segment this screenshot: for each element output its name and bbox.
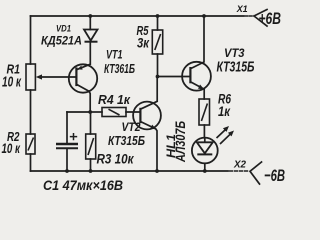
svg-text:КД521А: КД521А [41, 33, 82, 47]
wire left rail lower (R2 to bottom) [30, 154, 32, 171]
wire node A down to R3 [90, 112, 92, 134]
resistor R3 [86, 134, 96, 159]
svg-text:10 к: 10 к [2, 140, 21, 156]
wire bottom rail [31, 170, 229, 172]
svg-text:10 к: 10 к [2, 74, 21, 90]
svg-text:X1: X1 [236, 4, 248, 15]
svg-text:R4 1к: R4 1к [98, 92, 131, 107]
svg-text:−6В: −6В [264, 166, 285, 185]
wire VT3 emitter down to R6 [203, 89, 205, 99]
resistor R2 [26, 134, 35, 154]
junction node bottom VT2 emitter [155, 169, 159, 173]
junction node A (VT1 collector / R4 / C1 / R3) [88, 110, 92, 114]
svg-text:VT3: VT3 [224, 46, 245, 60]
wire R3 bottom lead [90, 159, 92, 171]
svg-text:КТ361Б: КТ361Б [104, 62, 135, 76]
svg-text:+6В: +6В [259, 10, 282, 28]
junction node top VD1 [88, 14, 92, 18]
svg-text:VT2: VT2 [122, 120, 141, 134]
resistor R1 (potentiometer body) [26, 64, 35, 90]
terminal X2 arrow [250, 162, 262, 184]
HL1 light emission arrow 1 [217, 126, 230, 138]
wire C1 top lead [66, 112, 68, 143]
wire R6 to HL1 [203, 125, 205, 138]
svg-text:С1 47мк×16В: С1 47мк×16В [43, 177, 123, 193]
junction node top VT3 collector [202, 14, 206, 18]
svg-text:КТ315Б: КТ315Б [108, 133, 145, 148]
wire node A to R4 [90, 111, 102, 113]
junction node bottom C1 [65, 169, 69, 173]
transistor VT2 (NPN) [133, 101, 161, 129]
LED HL1 [192, 138, 218, 164]
resistor R4 [102, 108, 126, 117]
wire node B to VT3 base [158, 76, 191, 78]
wire node A to C1 [67, 111, 90, 113]
VT1 emitter arrowhead (points to base) [77, 66, 82, 70]
wire VT2 emitter down to bottom rail [156, 129, 157, 171]
diode VD1 [84, 30, 98, 42]
wire node B down to VT2 collector [156, 77, 158, 102]
transistor VT1 (PNP) [69, 64, 97, 92]
svg-text:КТ315Б: КТ315Б [217, 60, 255, 76]
transistor VT3 (NPN) [182, 62, 211, 91]
wire bottom rail dashed lead-out to X2 [230, 170, 250, 172]
wire VD1 cathode to VT1 emitter [89, 42, 91, 65]
wire R5 bottom lead to node B [157, 54, 159, 77]
wire R4 to VT2 base [126, 111, 140, 113]
resistor R6 [199, 99, 210, 125]
wire VT1 collector down to node A [89, 91, 90, 112]
junction node bottom R3 [89, 169, 93, 173]
svg-text:X2: X2 [233, 159, 246, 171]
R1 wiper arrow to VT1 base [36, 74, 77, 79]
VT2 emitter arrowhead [150, 125, 156, 130]
wire top rail dashed lead-out to X1 [246, 15, 254, 17]
wire top rail [31, 15, 245, 17]
wire HL1 cathode to bottom rail [204, 163, 206, 171]
paper background [0, 0, 287, 193]
HL1 light emission arrow 2 [220, 131, 234, 145]
svg-text:АЛ307Б: АЛ307Б [172, 121, 188, 163]
wire R5 top lead [157, 16, 159, 30]
wire left rail upper (top to R1) [30, 16, 32, 64]
wire C1 bottom lead [66, 149, 68, 172]
svg-text:R3 10к: R3 10к [97, 151, 135, 166]
junction node top R5 [156, 14, 160, 18]
terminal X1 arrow [254, 10, 267, 27]
junction node B (R5 / VT3 base / VT2 collector) [156, 75, 160, 79]
wire left rail middle (R1 to R2) [30, 90, 32, 134]
wire VT3 collector up to top rail [203, 16, 205, 62]
junction node bottom HL1 [203, 169, 207, 173]
svg-text:VT1: VT1 [106, 48, 123, 62]
VT3 emitter arrowhead [198, 85, 204, 90]
resistor R5 [152, 30, 162, 54]
svg-text:3к: 3к [137, 35, 150, 51]
capacitor C1 (electrolytic) [56, 133, 78, 148]
svg-text:1к: 1к [218, 104, 231, 119]
wire VD1 anode lead from top rail [89, 16, 91, 30]
